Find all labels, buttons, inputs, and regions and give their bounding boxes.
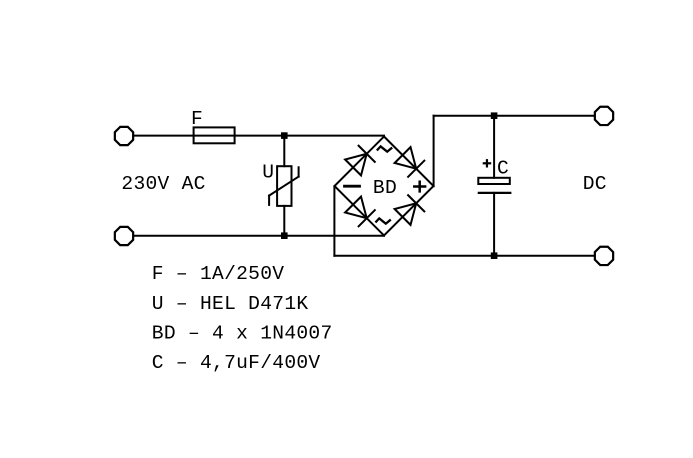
svg-text:U – HEL D471K: U – HEL D471K xyxy=(152,293,309,315)
svg-text:BD: BD xyxy=(373,177,397,199)
svg-text:F: F xyxy=(191,108,203,130)
svg-text:230V AC: 230V AC xyxy=(121,173,205,195)
svg-text:U: U xyxy=(262,162,274,184)
svg-text:BD – 4 x 1N4007: BD – 4 x 1N4007 xyxy=(152,322,333,344)
svg-text:F – 1A/250V: F – 1A/250V xyxy=(152,263,285,285)
svg-text:DC: DC xyxy=(583,173,607,195)
svg-text:C – 4,7uF/400V: C – 4,7uF/400V xyxy=(152,352,321,374)
svg-text:C: C xyxy=(497,158,509,180)
